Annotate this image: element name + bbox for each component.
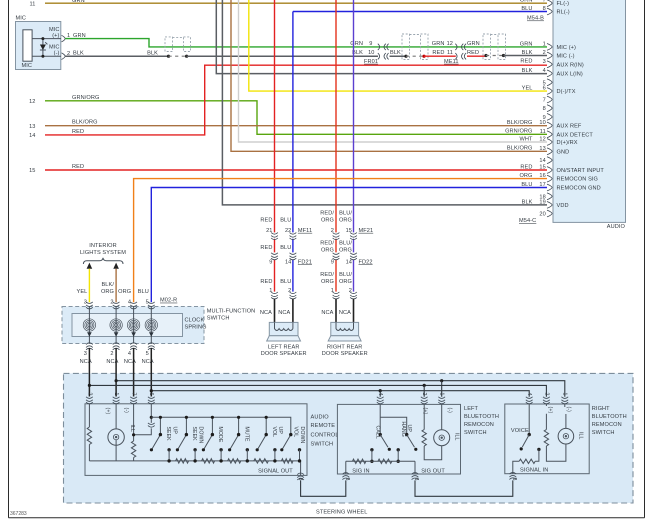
svg-text:AUX L(IN): AUX L(IN) (557, 71, 583, 77)
svg-text:AUX DETECT: AUX DETECT (557, 132, 594, 138)
svg-text:SIGNAL OUT: SIGNAL OUT (258, 469, 293, 475)
svg-text:D(-)/TX: D(-)/TX (557, 89, 576, 95)
svg-text:5: 5 (344, 478, 350, 481)
wire RED/ORG right rear speaker (335, 0, 337, 232)
svg-text:MIC: MIC (16, 16, 27, 22)
wire BLU segment (292, 239, 294, 292)
svg-text:LEFT REAR: LEFT REAR (268, 345, 300, 351)
svg-text:MUTE: MUTE (243, 427, 249, 443)
svg-text:ORG: ORG (339, 279, 352, 285)
clock spring top pin arcs (86, 302, 93, 309)
audio pin 20 (539, 210, 552, 217)
inline connector grommet 2 (402, 34, 428, 60)
audio remote control switch box (85, 404, 307, 476)
svg-text:ORG: ORG (321, 247, 334, 253)
branch wire pin6 to bluetooth switches (151, 391, 529, 397)
svg-text:GRN: GRN (432, 41, 445, 47)
svg-text:LIGHTS SYSTEM: LIGHTS SYSTEM (80, 250, 126, 256)
illumination lamp ILL (115, 404, 117, 429)
svg-text:7: 7 (131, 393, 137, 396)
svg-text:2: 2 (331, 228, 334, 234)
svg-text:15: 15 (346, 228, 352, 234)
svg-text:ORG: ORG (101, 289, 114, 295)
wire 13 BLK/ORG to audio AUX REF (29, 120, 547, 130)
svg-text:VOL: VOL (271, 427, 277, 438)
svg-text:SPRING: SPRING (185, 325, 207, 331)
connector break ME11 (271, 233, 278, 240)
svg-text:SIGNAL IN: SIGNAL IN (520, 468, 548, 474)
wire BLU RL(-) horizontal (293, 11, 547, 13)
svg-text:AUDIO: AUDIO (311, 414, 330, 420)
svg-text:AUX R(IN): AUX R(IN) (557, 62, 584, 68)
svg-text:14: 14 (285, 259, 291, 265)
svg-text:21: 21 (266, 228, 272, 234)
wire RED left rear speaker (274, 0, 276, 232)
mic pin 2 (62, 53, 66, 60)
svg-text:SEEK: SEEK (165, 427, 171, 442)
svg-text:AUX REF: AUX REF (557, 124, 582, 130)
svg-text:MIC (-): MIC (-) (557, 54, 575, 60)
svg-text:VOL: VOL (293, 427, 299, 438)
svg-text:NCA: NCA (321, 310, 333, 316)
svg-text:BLK: BLK (73, 50, 84, 56)
connector break ME21 (333, 233, 340, 240)
svg-text:11: 11 (29, 1, 35, 7)
svg-text:GRN: GRN (73, 33, 86, 39)
svg-text:GRN: GRN (72, 0, 85, 4)
diode D (40, 45, 46, 51)
audio pin 11 AUX DETECT (505, 129, 593, 139)
svg-text:RED: RED (260, 245, 272, 251)
wire BLK to audio VDD (222, 0, 547, 205)
svg-text:M54-C: M54-C (519, 218, 536, 224)
svg-text:6: 6 (148, 393, 154, 396)
wire ORG remocon sig (134, 179, 547, 303)
audio pin 17 REMOCON GND (521, 182, 600, 192)
svg-text:13: 13 (29, 124, 35, 130)
svg-text:RED: RED (432, 50, 444, 56)
signal out to sig in link (301, 480, 346, 496)
svg-text:DOOR SPEAKER: DOOR SPEAKER (322, 351, 368, 357)
wire BLU/ORG right rear speaker (353, 0, 355, 232)
connector break FD21 (271, 253, 278, 260)
svg-text:NCA: NCA (260, 310, 272, 316)
page border left (8, 0, 10, 518)
splice dots and dashed pass-through 3 (484, 54, 505, 57)
svg-text:22: 22 (285, 228, 291, 234)
hang up switch (397, 422, 418, 463)
wire GRN MIC(+) to audio pin 1 (65, 33, 547, 47)
svg-text:4: 4 (128, 351, 131, 357)
svg-text:1: 1 (113, 393, 119, 396)
svg-text:6: 6 (413, 478, 419, 481)
svg-text:9: 9 (369, 41, 372, 47)
svg-text:M54-B: M54-B (527, 16, 544, 22)
svg-text:UP: UP (406, 425, 412, 433)
svg-text:MF11: MF11 (298, 228, 312, 234)
svg-text:ME11: ME11 (444, 59, 459, 65)
svg-text:ORG: ORG (339, 247, 352, 253)
mic internal leads (32, 39, 61, 57)
svg-text:14: 14 (29, 133, 35, 139)
svg-text:FL(-): FL(-) (557, 1, 570, 7)
switch VOL DOWN (280, 427, 305, 463)
svg-text:FD22: FD22 (359, 259, 373, 265)
svg-text:2: 2 (86, 393, 92, 396)
svg-text:8: 8 (297, 478, 303, 481)
wire BLK to FR01 (187, 41, 378, 56)
connector break FD22 (333, 253, 340, 260)
svg-text:RED/: RED/ (320, 241, 334, 247)
connector FR01 (364, 44, 389, 65)
svg-text:SWITCH: SWITCH (207, 316, 230, 322)
svg-text:MULTI-FUNCTION: MULTI-FUNCTION (207, 308, 256, 314)
svg-text:(+): (+) (52, 33, 59, 39)
svg-text:2: 2 (349, 288, 352, 294)
svg-text:SWITCH: SWITCH (464, 430, 487, 436)
junction dots (115, 379, 118, 382)
page border bottom (9, 517, 645, 519)
svg-text:SWITCH: SWITCH (311, 441, 334, 447)
svg-text:VOICE: VOICE (511, 428, 529, 434)
svg-text:BLU: BLU (138, 289, 149, 295)
wire 15 RED to audio ON/START INPUT (29, 164, 547, 174)
svg-text:2: 2 (288, 288, 291, 294)
audio pin 13 GND (507, 146, 569, 156)
audio pin 19 VDD (522, 199, 569, 209)
wire BLK to audio pin 2 (504, 55, 548, 57)
svg-text:AUDIO: AUDIO (607, 224, 626, 230)
steering wheel boundary (64, 373, 634, 503)
svg-text:RED/: RED/ (320, 272, 334, 278)
svg-text:YEL: YEL (77, 289, 88, 295)
audio pin 14 (539, 157, 552, 164)
svg-text:REMOCON: REMOCON (464, 422, 494, 428)
splice dots and dashed pass-through (167, 55, 188, 58)
audio pin 9 (543, 114, 553, 121)
wire arrows into clock spring (87, 332, 92, 337)
svg-text:DOOR SPEAKER: DOOR SPEAKER (261, 351, 307, 357)
svg-text:7: 7 (543, 98, 546, 104)
clock spring coils (83, 307, 157, 344)
arrow to interior lights (BLK/ORG) (113, 263, 119, 269)
audio unit block (553, 0, 626, 222)
clock spring bottom pin arcs (86, 343, 93, 350)
NCA wires down to steering wheel (89, 348, 151, 397)
svg-text:REMOCON SIG: REMOCON SIG (557, 177, 599, 183)
svg-text:ORG: ORG (321, 279, 334, 285)
audio pin 3 AUX R(IN) (520, 59, 583, 69)
audio pin 8 (543, 105, 553, 112)
svg-text:BLK: BLK (147, 50, 158, 56)
illumination feed resistor R1 (88, 404, 90, 427)
left bt ILL lamp and resistor (422, 404, 460, 459)
svg-text:RED: RED (72, 164, 84, 170)
svg-text:DOWN: DOWN (299, 427, 305, 444)
svg-text:REMOCON: REMOCON (592, 422, 622, 428)
arcs pin entries (86, 397, 93, 404)
svg-text:INTERIOR: INTERIOR (89, 243, 117, 249)
call switch (370, 404, 407, 463)
svg-text:14: 14 (346, 259, 352, 265)
svg-text:NCA: NCA (339, 310, 351, 316)
svg-text:RIGHT REAR: RIGHT REAR (327, 345, 362, 351)
multi-function switch box (62, 307, 204, 344)
wire BLK/ORG to audio GND (231, 0, 547, 151)
sig in resistor chain (346, 461, 415, 474)
svg-text:UP: UP (277, 427, 283, 435)
audio pin 5 (543, 79, 553, 86)
svg-text:M02-R: M02-R (160, 298, 177, 304)
bottom resistor chain bus (89, 461, 300, 476)
svg-text:12: 12 (29, 99, 35, 105)
wire RED segment (274, 239, 276, 292)
svg-text:(+): (+) (547, 407, 553, 414)
svg-text:HANG: HANG (400, 422, 406, 437)
svg-text:CLOCK: CLOCK (185, 317, 205, 323)
top feed bus (151, 417, 290, 434)
chain resistors (176, 459, 293, 463)
svg-text:ILL: ILL (577, 432, 583, 440)
svg-text:ORG: ORG (339, 217, 352, 223)
svg-text:BLU/: BLU/ (339, 241, 352, 247)
svg-text:1: 1 (331, 288, 334, 294)
junction (41, 55, 44, 58)
NCA wires to RIGHT REAR|DOOR SPEAKER (336, 299, 354, 324)
clock spring inner box (72, 314, 183, 337)
svg-text:10: 10 (368, 50, 374, 56)
svg-text:SIG IN: SIG IN (352, 469, 369, 475)
audio pin 2 MIC (-) (522, 50, 575, 60)
switch MODE (202, 416, 223, 463)
audio pin 18 (539, 193, 552, 200)
wire BLU remocon gnd (151, 188, 547, 303)
svg-text:5: 5 (511, 478, 517, 481)
svg-text:RED: RED (260, 217, 272, 223)
inline connector grommet 3 (483, 34, 506, 60)
switch SEEK DOWN (176, 416, 204, 463)
mic element (23, 30, 32, 61)
svg-text:NCA: NCA (278, 310, 290, 316)
wire YEL to audio D(-)/TX (249, 0, 547, 91)
voice switch (511, 404, 541, 461)
audio pin 1 MIC (+) (520, 41, 576, 51)
signal in resistor (519, 459, 535, 463)
svg-text:15: 15 (29, 168, 35, 174)
wire 14 RED to audio AUX R(IN) (29, 65, 547, 139)
arrow to interior lights (YEL) (87, 263, 93, 269)
wire BLK/ORG clock spring (115, 269, 117, 303)
svg-text:FD21: FD21 (298, 259, 312, 265)
svg-text:14: 14 (539, 158, 545, 164)
svg-text:BLU: BLU (280, 245, 291, 251)
svg-text:3: 3 (543, 59, 546, 65)
wire BLU/ORG segment (353, 239, 355, 292)
audio pin 10 AUX REF (507, 120, 582, 130)
audio pin 4 AUX L(IN) (522, 68, 583, 78)
svg-text:BLU: BLU (280, 279, 291, 285)
svg-text:RIGHT: RIGHT (592, 406, 610, 412)
svg-text:STEERING WHEEL: STEERING WHEEL (316, 510, 367, 516)
svg-text:GRN: GRN (350, 41, 363, 47)
svg-text:BLU/: BLU/ (339, 272, 352, 278)
svg-text:MIC: MIC (22, 63, 33, 69)
wire WHT to audio D(+)/RX (239, 0, 548, 142)
svg-text:RL(-): RL(-) (557, 10, 570, 16)
svg-text:9: 9 (269, 259, 272, 265)
svg-text:(-): (-) (447, 408, 453, 414)
wire BLK to audio AUX L(IN) (216, 0, 547, 74)
branch wire pin1 to bluetooth switches (116, 381, 565, 397)
wire pin6 with inline joint (134, 404, 152, 435)
audio top pin 8 RL(-) (521, 6, 569, 16)
wire RED 11 to ME11 (424, 41, 456, 56)
branch wire pin2 to bluetooth switches (89, 385, 546, 396)
connector ME11 (444, 44, 466, 65)
svg-text:VDD: VDD (557, 203, 569, 209)
audio pin 16 REMOCON SIG (519, 173, 598, 183)
audio top pin 7 FL(-) (520, 0, 569, 7)
switch VOL UP (256, 416, 284, 463)
wire 12 GRN/ORG to audio AUX DETECT (29, 95, 547, 135)
NCA wires to LEFT REAR|DOOR SPEAKER (275, 299, 293, 324)
svg-text:GND: GND (557, 149, 570, 155)
svg-text:BLK/ORG: BLK/ORG (72, 120, 98, 126)
svg-text:GRN: GRN (467, 41, 480, 47)
svg-text:11: 11 (447, 50, 453, 56)
svg-text:REMOCON GND: REMOCON GND (557, 186, 601, 192)
svg-text:RED: RED (467, 50, 479, 56)
mic pin 1 (62, 35, 66, 42)
wire BLK MIC(-) segment to connector (65, 50, 168, 56)
audio pin 15 ON/START INPUT (520, 164, 604, 174)
microphone unit MIC (16, 22, 61, 70)
svg-text:RED: RED (520, 59, 532, 65)
svg-text:9: 9 (331, 259, 334, 265)
bt pin drop wires (380, 381, 442, 397)
connector break speaker (271, 292, 278, 299)
audio pin 12 D(+)/RX (519, 136, 577, 146)
svg-text:MIC (+): MIC (+) (557, 45, 577, 51)
svg-text:20: 20 (539, 212, 545, 218)
svg-text:2: 2 (110, 351, 113, 357)
svg-text:3: 3 (84, 351, 87, 357)
svg-text:CALL: CALL (375, 426, 381, 439)
audio pin 6 D(-)/TX (522, 85, 576, 95)
svg-text:(+): (+) (104, 408, 110, 415)
audio pin 7 (543, 96, 553, 103)
page border right (644, 0, 646, 518)
svg-text:MF21: MF21 (359, 228, 374, 234)
wire pin7 ILL- with resistor R2 (133, 404, 135, 441)
svg-text:SWITCH: SWITCH (592, 430, 615, 436)
svg-text:UP: UP (171, 427, 177, 435)
svg-text:BLUETOOTH: BLUETOOTH (464, 414, 499, 420)
svg-text:367283: 367283 (10, 511, 27, 517)
svg-text:BLUETOOTH: BLUETOOTH (592, 414, 627, 420)
svg-text:(+): (+) (422, 408, 428, 415)
svg-text:ILL: ILL (129, 425, 135, 433)
wire RED after ME11 (467, 41, 486, 56)
RIGHT REAR|DOOR SPEAKER (331, 322, 359, 335)
svg-text:BLU/: BLU/ (339, 211, 352, 217)
svg-text:SIG OUT: SIG OUT (421, 469, 445, 475)
interior lights system callout (80, 243, 126, 264)
svg-text:ON/START INPUT: ON/START INPUT (557, 168, 605, 174)
svg-text:BLK/: BLK/ (101, 282, 114, 288)
wire YEL clock spring (88, 269, 90, 303)
svg-text:BLK: BLK (390, 50, 401, 56)
left bluetooth remocon switch box (337, 404, 460, 474)
svg-text:FR01: FR01 (364, 59, 378, 65)
LEFT REAR|DOOR SPEAKER (269, 322, 298, 335)
svg-text:ILL: ILL (454, 433, 460, 441)
wire BLK after FR01 (390, 50, 407, 56)
wire 11 GRN to audio FL(-) (29, 0, 547, 7)
svg-text:DOWN: DOWN (197, 427, 203, 444)
switch MUTE (228, 416, 249, 463)
svg-text:(-): (-) (54, 51, 60, 57)
svg-text:RED: RED (260, 279, 272, 285)
svg-text:(-): (-) (565, 407, 571, 413)
wire RED/ORG segment (335, 239, 337, 292)
svg-text:REMOTE: REMOTE (311, 423, 336, 429)
svg-text:ORG: ORG (118, 289, 131, 295)
svg-text:RED: RED (72, 129, 84, 135)
svg-text:BLU: BLU (280, 217, 291, 223)
switch SEEK UP (150, 416, 178, 463)
svg-text:5: 5 (146, 351, 149, 357)
svg-text:SEEK: SEEK (191, 427, 197, 442)
right bt ILL lamp and resistor (544, 404, 583, 461)
right bt pin entries (526, 397, 533, 404)
svg-text:1: 1 (269, 288, 272, 294)
right bluetooth remocon switch box (505, 404, 589, 474)
sig out to signal in link (415, 480, 513, 496)
left bt pin entries (377, 397, 384, 404)
inline connector grommet 1 (165, 37, 191, 52)
svg-text:GRN/ORG: GRN/ORG (72, 95, 99, 101)
svg-text:LEFT: LEFT (464, 406, 479, 412)
svg-text:MODE: MODE (217, 427, 223, 443)
wire BLU left rear speaker (292, 12, 294, 233)
junction (41, 37, 44, 40)
svg-text:RED/: RED/ (320, 211, 334, 217)
svg-text:12: 12 (447, 41, 453, 47)
svg-text:D(+)/RX: D(+)/RX (557, 140, 578, 146)
svg-text:(-): (-) (123, 408, 129, 414)
svg-text:ORG: ORG (321, 217, 334, 223)
splice dots and dashed pass-through 2 (404, 55, 425, 58)
svg-text:CONTROL: CONTROL (311, 433, 339, 439)
connector break speaker (333, 292, 340, 299)
svg-text:8: 8 (543, 106, 546, 112)
